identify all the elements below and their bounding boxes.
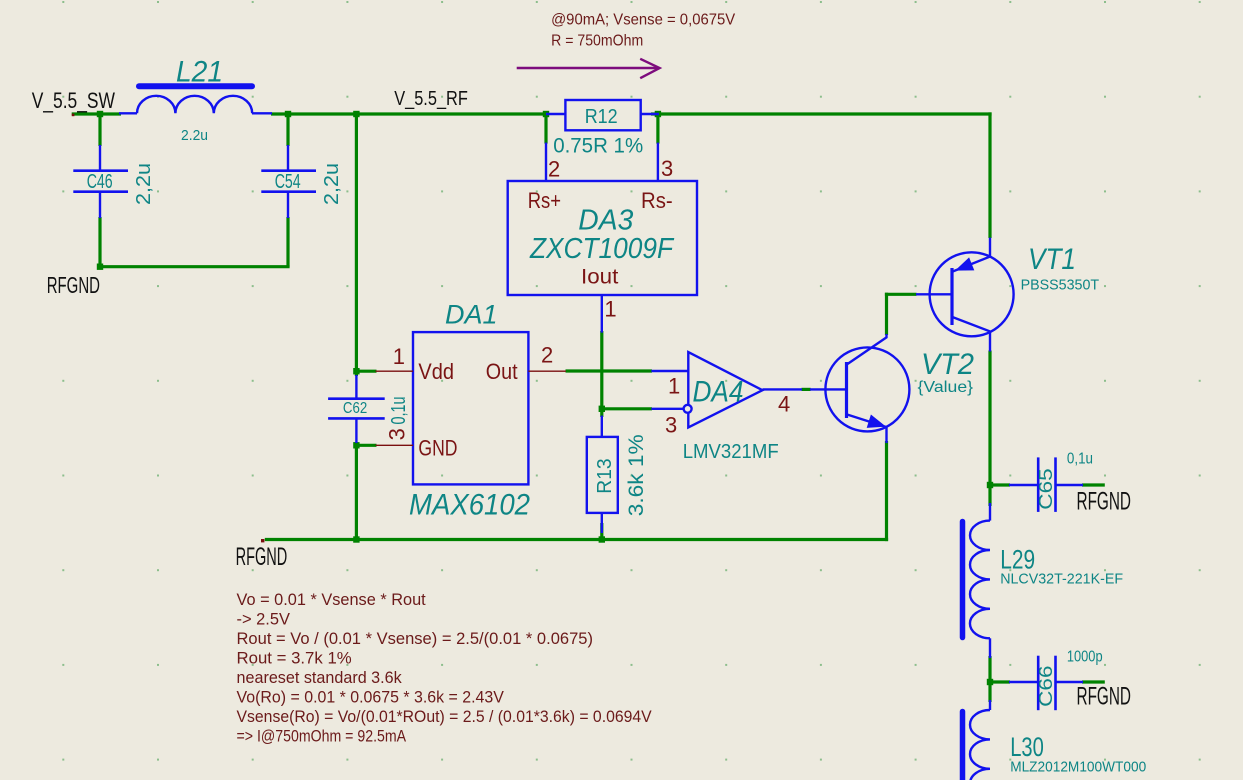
- wire R12 right junction down stub: [656, 114, 659, 144]
- svg-text:Vo = 0.01 * Vsense * Rout: Vo = 0.01 * Vsense * Rout: [237, 590, 426, 609]
- svg-text:GND: GND: [418, 436, 457, 461]
- VT2 base bar: [845, 362, 848, 418]
- svg-text:Rs+: Rs+: [528, 188, 561, 213]
- wire C65 left stub: [990, 483, 1010, 486]
- capacitor C62 leads: [355, 375, 357, 398]
- svg-text:2: 2: [541, 343, 553, 368]
- svg-text:RFGND: RFGND: [236, 543, 288, 571]
- capacitor C46: [99, 145, 101, 170]
- svg-text:Vdd: Vdd: [418, 359, 454, 384]
- wire RFGND bottom rail: [265, 538, 888, 541]
- wire R12 left junction down stub: [544, 114, 547, 144]
- wire C65 right to RFGND: [1082, 483, 1105, 486]
- VT1 collector bottom: [953, 317, 990, 351]
- wire C46 top stub: [98, 114, 101, 146]
- VT2 collector: [848, 334, 887, 364]
- net label anchor dot V_5.5_SW: [72, 114, 75, 117]
- DA4 pin 1: [651, 370, 688, 372]
- svg-text:RFGND: RFGND: [47, 272, 100, 298]
- wire VT2 collector up: [885, 293, 888, 335]
- junction bottom rail vertical: [353, 536, 359, 542]
- VT2 emitter: [848, 415, 887, 443]
- op-amp DA4 triangle: [688, 352, 762, 427]
- junction DA4 pin3 R13: [599, 406, 605, 412]
- net label anchor dot: [261, 539, 264, 542]
- VT1 base bar: [950, 268, 953, 325]
- svg-text:RFGND: RFGND: [1077, 683, 1132, 711]
- svg-text:DA3: DA3: [578, 205, 633, 237]
- svg-text:Rs-: Rs-: [641, 188, 673, 213]
- wire RFGND bottom of C46 C54: [100, 265, 290, 268]
- transistor VT2 circle: [825, 347, 909, 431]
- capacitor C62 plates: [328, 397, 385, 400]
- resistor R13 body: [587, 437, 618, 513]
- svg-text:Iout: Iout: [581, 266, 618, 289]
- svg-text:1000p: 1000p: [1067, 649, 1103, 666]
- svg-text:2,2u: 2,2u: [321, 163, 343, 205]
- VT1 emitter top: [953, 238, 990, 272]
- wire DA3 Iout down: [600, 331, 603, 417]
- DA4 pin 3 with inversion bubble: [651, 408, 683, 410]
- svg-text:1: 1: [668, 374, 680, 399]
- capacitor C54: [287, 145, 289, 170]
- svg-text:1: 1: [393, 344, 405, 369]
- svg-text:2.2u: 2.2u: [181, 127, 208, 144]
- svg-text:4: 4: [778, 392, 790, 417]
- wire C54 bottom stub: [286, 217, 289, 267]
- junction rail-vertical: [353, 111, 359, 117]
- svg-text:L21: L21: [176, 56, 223, 89]
- DA1 pin 2 line: [528, 370, 566, 372]
- svg-text:3.6k 1%: 3.6k 1%: [625, 434, 648, 516]
- DA1 pin 3 line: [376, 444, 414, 446]
- inductor L21 arcs: [137, 96, 252, 114]
- wire long vertical V rail to DA1 Vdd junction: [355, 114, 358, 376]
- DA3 pin 3: [657, 143, 659, 181]
- wire DA4 out gap segment: [802, 388, 811, 391]
- DA3 pin 2: [545, 143, 547, 181]
- svg-text:R12: R12: [585, 106, 618, 128]
- wire DA1 GND stub: [356, 444, 376, 447]
- inductor L21 leads: [119, 112, 137, 114]
- wire C66 left stub: [990, 680, 1010, 683]
- junction DA1 GND: [353, 442, 359, 448]
- capacitor C65 plates: [1037, 457, 1040, 512]
- svg-text:R = 750mOhm: R = 750mOhm: [551, 33, 643, 50]
- svg-text:0.75R 1%: 0.75R 1%: [553, 135, 643, 158]
- svg-text:V_5.5_RF: V_5.5_RF: [394, 88, 468, 110]
- svg-text:1: 1: [604, 297, 616, 322]
- wire junction to DA4 pin3: [602, 407, 652, 410]
- DA4 pin 4 output: [763, 388, 803, 390]
- wire DA1 Vdd stub: [356, 370, 376, 373]
- wire R13 bottom to RFGND rail: [600, 523, 603, 541]
- junction bottom rail R13: [599, 536, 605, 542]
- wire VT2 emitter down to rail: [885, 441, 888, 541]
- svg-text:Vsense(Ro) = Vo/(0.01*ROut) =: Vsense(Ro) = Vo/(0.01*ROut) = 2.5 / (0.0…: [237, 707, 653, 726]
- svg-text:-> 2.5V: -> 2.5V: [237, 610, 291, 629]
- svg-text:2: 2: [548, 157, 560, 182]
- junction rail-C46: [97, 111, 103, 117]
- svg-text:Rout = 3.7k 1%: Rout = 3.7k 1%: [237, 649, 352, 668]
- svg-text:@90mA; Vsense = 0,0675V: @90mA; Vsense = 0,0675V: [551, 12, 735, 29]
- wire rail L21 to R12: [271, 112, 547, 115]
- DA1 pin 1 line: [376, 370, 414, 372]
- wire C46 bottom stub: [98, 217, 101, 268]
- wire C54 top stub: [286, 114, 289, 146]
- svg-text:L30: L30: [1010, 732, 1044, 762]
- junction rail-C54: [285, 111, 291, 117]
- svg-text:2,2u: 2,2u: [133, 163, 155, 205]
- junction rail-R12 right: [655, 111, 661, 117]
- svg-text:LMV321MF: LMV321MF: [683, 441, 779, 463]
- VT1 base pin: [916, 293, 952, 295]
- inductor L29 core bar: [960, 522, 966, 638]
- transistor VT1 circle: [930, 252, 1014, 336]
- svg-text:C66: C66: [1036, 666, 1056, 707]
- VT2 base pin: [810, 388, 847, 390]
- capacitor C66 leads: [1009, 681, 1037, 683]
- svg-text:VT2: VT2: [921, 348, 974, 381]
- capacitor C66 plates: [1037, 656, 1040, 711]
- junction DA1 Vdd: [353, 368, 359, 374]
- junction C65 tap: [987, 482, 993, 488]
- svg-text:3: 3: [385, 428, 410, 440]
- svg-text:NLCV32T-221K-EF: NLCV32T-221K-EF: [1000, 571, 1123, 588]
- wire DA1 Out to DA4 pin1: [566, 369, 653, 372]
- wire L29 bottom to C66 junction: [988, 656, 991, 702]
- svg-text:C54: C54: [275, 171, 301, 193]
- VT2 emitter arrow: [867, 415, 886, 428]
- VT1 emitter arrow: [955, 257, 974, 270]
- svg-text:RFGND: RFGND: [1077, 488, 1132, 516]
- svg-text:Rout = Vo / (0.01 * Vsense) =: Rout = Vo / (0.01 * Vsense) = 2.5/(0.01 …: [237, 629, 594, 648]
- wire rail corner down to VT1 emitter: [988, 112, 991, 238]
- wire C66 right to RFGND: [1082, 680, 1105, 683]
- svg-text:C46: C46: [87, 171, 113, 193]
- svg-text:V_5.5_SW: V_5.5_SW: [32, 88, 115, 113]
- svg-text:3: 3: [661, 156, 673, 181]
- capacitor C65 leads: [1009, 484, 1037, 486]
- svg-text:ZXCT1009F: ZXCT1009F: [529, 233, 675, 265]
- svg-text:MLZ2012M100WT000: MLZ2012M100WT000: [1010, 759, 1146, 776]
- wire C62 lower lead to GND junction to bottom: [355, 442, 358, 541]
- junction rail-R12 left: [543, 111, 549, 117]
- annotation arrow: [517, 59, 660, 78]
- wire V_5.5_SW left segment: [72, 112, 121, 115]
- svg-text:C62: C62: [343, 400, 367, 417]
- IC DA3 body: [508, 181, 697, 295]
- svg-text:DA4: DA4: [693, 376, 744, 409]
- svg-text:0,1u: 0,1u: [388, 397, 410, 425]
- svg-text:R13: R13: [594, 458, 616, 493]
- svg-text:neareset standard 3.6k: neareset standard 3.6k: [237, 668, 403, 687]
- junction C46 bottom corner: [97, 264, 103, 270]
- inductor L30 arcs: [989, 700, 991, 710]
- svg-text:MAX6102: MAX6102: [409, 489, 530, 522]
- DA3 pin 1 Iout: [601, 295, 603, 333]
- svg-text:0,1u: 0,1u: [1067, 450, 1093, 467]
- inductor L29 arcs: [989, 503, 991, 521]
- resistor R12 pins: [546, 113, 565, 115]
- svg-text:Vo(Ro) = 0.01 * 0.0675 * 3.6k: Vo(Ro) = 0.01 * 0.0675 * 3.6k = 2.43V: [237, 688, 505, 707]
- IC DA1 body: [413, 332, 528, 484]
- svg-text:Out: Out: [486, 359, 518, 384]
- inductor L21 core bar: [139, 83, 252, 89]
- wire VT1 collector down to C65 junction and L29: [988, 351, 991, 507]
- svg-text:DA1: DA1: [445, 300, 498, 330]
- junction C66 tap: [987, 679, 993, 685]
- svg-text:C65: C65: [1036, 468, 1056, 509]
- svg-text:PBSS5350T: PBSS5350T: [1021, 276, 1100, 293]
- inductor L30 core bar: [960, 712, 966, 780]
- svg-text:=> I@750mOhm = 92.5mA: => I@750mOhm = 92.5mA: [237, 727, 407, 746]
- resistor R12 body: [565, 100, 640, 130]
- svg-text:3: 3: [665, 413, 677, 438]
- resistor R13 pins: [601, 416, 603, 437]
- svg-text:VT1: VT1: [1028, 243, 1076, 276]
- wire VT2 collector to VT1 base: [885, 293, 917, 296]
- svg-text:{Value}: {Value}: [918, 379, 974, 396]
- wire rail R12 to corner: [651, 112, 992, 115]
